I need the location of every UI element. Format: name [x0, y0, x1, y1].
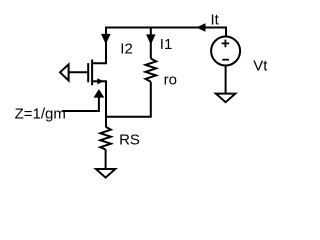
wire: ro branch from rail to resistor	[150, 27, 152, 59]
wire: Z annotation stem and lead to label	[62, 97, 99, 111]
annotation arrow Z (solid up arrow at source node)	[94, 89, 105, 98]
wire: ro bottom return to source node	[105, 82, 151, 117]
transistor M1: gate bar	[87, 63, 89, 82]
transistor M1: channel bar	[91, 60, 93, 86]
wire: gate lead	[69, 71, 89, 73]
svg-text:Z=1/gm: Z=1/gm	[15, 106, 66, 123]
wire: drain riser and drain lead of transistor	[92, 27, 106, 64]
resistor RS (zigzag)	[100, 127, 111, 150]
svg-text:ro: ro	[164, 71, 177, 88]
voltage source Vt: minus sign	[222, 59, 229, 61]
transistor M1: source arrowhead	[97, 78, 104, 84]
current arrow I1 (pointing down on ro branch)	[146, 34, 155, 44]
voltage source Vt: plus sign	[222, 40, 230, 48]
svg-text:It: It	[211, 12, 220, 29]
current arrow It (pointing left on top rail)	[196, 23, 206, 31]
wire: top rail from drain riser to Vt source	[106, 27, 226, 29]
svg-text:I1: I1	[160, 36, 173, 53]
wire: right drop from rail to Vt source top	[225, 27, 227, 37]
ground symbol (right, below Vt)	[216, 94, 235, 103]
ground symbol (bottom, below RS)	[96, 169, 115, 178]
wire: source down to RS top (junction with ro return)	[105, 80, 107, 127]
wire: RS bottom to ground	[105, 150, 107, 169]
resistor ro (zigzag)	[146, 59, 157, 82]
current arrow I2 (pointing down on drain riser)	[101, 34, 111, 44]
svg-text:RS: RS	[119, 131, 140, 148]
transistor M1: source lead with arrow	[92, 80, 106, 82]
gate input port: open triangle	[60, 64, 69, 80]
voltage source Vt: circle	[211, 37, 240, 66]
svg-text:I2: I2	[120, 41, 133, 58]
wire: Vt bottom stem to ground	[225, 66, 227, 94]
svg-text:Vt: Vt	[253, 58, 268, 75]
